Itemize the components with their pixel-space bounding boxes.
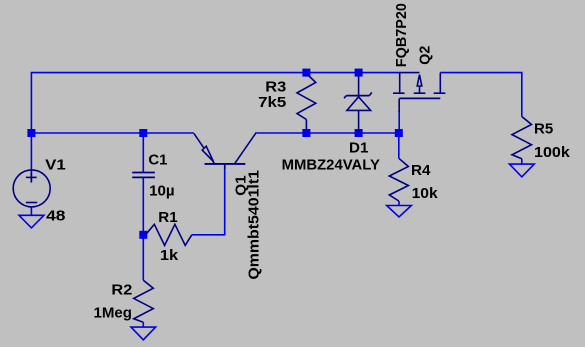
svg-text:R3: R3 xyxy=(265,80,286,96)
svg-text:Qmmbt5401lt1: Qmmbt5401lt1 xyxy=(247,170,263,280)
svg-text:1Meg: 1Meg xyxy=(94,306,133,322)
svg-text:48: 48 xyxy=(46,209,65,225)
svg-text:C1: C1 xyxy=(148,153,167,169)
svg-text:100k: 100k xyxy=(534,145,571,161)
svg-text:V1: V1 xyxy=(45,158,66,174)
svg-text:R1: R1 xyxy=(158,210,177,226)
svg-text:D1: D1 xyxy=(349,140,368,156)
svg-text:7k5: 7k5 xyxy=(258,95,286,111)
svg-text:Q2: Q2 xyxy=(418,46,434,65)
svg-text:R2: R2 xyxy=(111,283,132,299)
svg-text:FQB7P20: FQB7P20 xyxy=(394,3,410,67)
svg-text:MMBZ24VALY: MMBZ24VALY xyxy=(282,158,381,174)
svg-text:10µ: 10µ xyxy=(149,183,175,199)
svg-text:10k: 10k xyxy=(412,186,439,202)
svg-text:R4: R4 xyxy=(411,163,431,179)
svg-text:R5: R5 xyxy=(534,122,553,138)
svg-text:1k: 1k xyxy=(160,248,179,264)
